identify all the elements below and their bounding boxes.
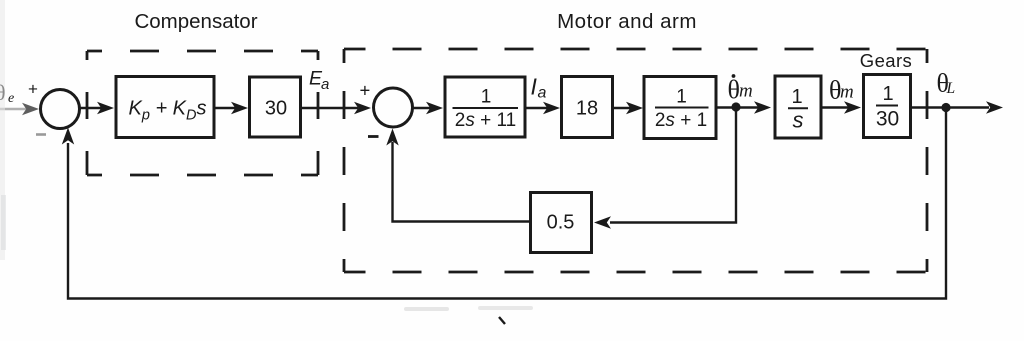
- wire 30 block to summer S2: [300, 107, 358, 109]
- svg-text:Kp + KDs: Kp + KDs: [128, 98, 206, 124]
- svg-text:2s + 1: 2s + 1: [655, 110, 707, 131]
- svg-text:18: 18: [576, 98, 598, 120]
- svg-text:1: 1: [791, 86, 802, 108]
- scan artifact: stray mark under diagram: [499, 317, 505, 324]
- svg-text:2s + 11: 2s + 11: [455, 110, 516, 131]
- svg-text:+: +: [28, 80, 38, 99]
- wire 18 to 1/(2s+1): [613, 107, 631, 109]
- svg-text:I: I: [531, 74, 538, 100]
- svg-text:30: 30: [265, 98, 287, 120]
- wire S2 to block 1/(2s+11): [413, 107, 431, 109]
- block 0.5: [531, 193, 592, 253]
- wire Kp block to 30 block: [214, 107, 236, 109]
- dashed box Compensator: [87, 51, 318, 175]
- input arrow (faded): [0, 108, 26, 111]
- inner feedback wire from 0.5 left and up into summer S2: [393, 142, 531, 222]
- inner feedback wire from theta_m_dot node down and left into 0.5: [610, 108, 736, 223]
- svg-text:+: +: [360, 80, 371, 101]
- minus sign at summer S2: [368, 135, 379, 138]
- svg-text:Compensator: Compensator: [134, 10, 257, 33]
- outer feedback wire from theta_L node down, left and up into summer S1: [68, 108, 946, 299]
- block 30: [250, 77, 301, 137]
- scan artifact: faint smudges under diagram: [404, 307, 449, 311]
- svg-text:m: m: [840, 82, 854, 103]
- svg-text:L: L: [946, 80, 956, 97]
- svg-text:1: 1: [676, 87, 687, 108]
- svg-text:30: 30: [876, 108, 899, 131]
- block 1/(2s+1): [644, 77, 716, 139]
- svg-text:0.5: 0.5: [547, 212, 575, 234]
- wire 1/s to 1/30: [821, 106, 849, 108]
- node dot theta_m_dot: [731, 102, 740, 111]
- block 1/30 (Gears): [864, 75, 911, 138]
- block Kp + KDs: [116, 77, 214, 138]
- block 18: [562, 77, 613, 138]
- dashed box Motor and arm: [344, 49, 927, 272]
- block 1/(2s+11): [445, 77, 525, 137]
- wire 1/(2s+11) to 18: [525, 107, 548, 109]
- summing junction S1: [41, 90, 80, 129]
- scan artifact: left edge streak: [0, 0, 5, 260]
- summing junction S2: [374, 88, 413, 127]
- wire 1/(2s+1) to 1/s with node: [716, 106, 761, 108]
- svg-text:a: a: [538, 85, 547, 102]
- node dot theta_L: [941, 103, 950, 112]
- svg-text:1: 1: [882, 83, 893, 105]
- minus sign at summer S1: [36, 133, 46, 136]
- svg-text:m: m: [739, 81, 753, 102]
- wire 1/30 to output: [911, 106, 989, 108]
- svg-text:Gears: Gears: [860, 50, 912, 71]
- block 1/s: [775, 76, 821, 138]
- svg-text:1: 1: [481, 87, 492, 108]
- svg-text:a: a: [321, 76, 329, 93]
- svg-text:s: s: [793, 108, 804, 133]
- svg-text:e: e: [8, 91, 14, 106]
- svg-text:Motor and arm: Motor and arm: [557, 10, 697, 33]
- wire S1 to compensator block: [80, 107, 102, 109]
